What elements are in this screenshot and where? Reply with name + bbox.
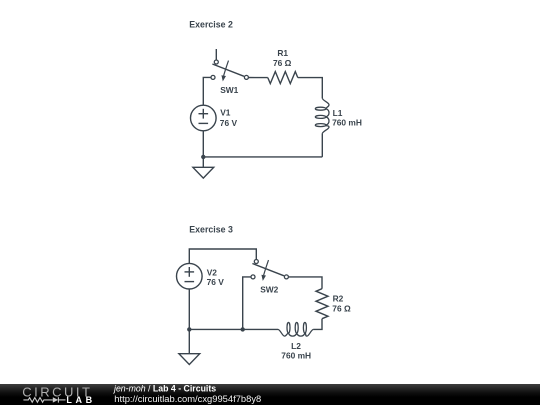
label L2 value 760 mH — [281, 341, 311, 361]
svg-text:R2: R2 — [333, 294, 344, 304]
wire SW2 right terminal to R2 top — [286, 277, 322, 289]
wire V2 bottom to ground — [188, 289, 190, 354]
svg-text:76 V: 76 V — [207, 277, 225, 287]
wire V1 bottom to ground — [202, 131, 204, 168]
svg-text:SW1: SW1 — [220, 85, 238, 95]
switch SW1 — [211, 60, 248, 81]
svg-text:V2: V2 — [207, 268, 218, 278]
logo schematic glyph (resistor + diode line) — [23, 397, 65, 402]
svg-text:760 mH: 760 mH — [332, 118, 362, 128]
node junction dot SW2 branch — [241, 327, 245, 331]
label V2 value 76 V — [207, 268, 225, 288]
svg-text:L2: L2 — [291, 341, 301, 351]
svg-text:V1: V1 — [220, 108, 231, 118]
wire bottom rail circuit2 — [189, 328, 278, 330]
inductor L1 — [315, 98, 329, 133]
wire bottom rail circuit1 — [203, 156, 322, 158]
ground circuit1 — [193, 167, 214, 178]
wire R2 bottom to L2 right — [313, 319, 322, 330]
svg-text:SW2: SW2 — [260, 284, 278, 294]
wire V2 top to SW2 top — [189, 249, 256, 263]
svg-text:http://circuitlab.com/cxg9954f: http://circuitlab.com/cxg9954f7b8y8 — [114, 393, 261, 404]
resistor R1 — [268, 72, 298, 84]
inductor L2 — [278, 322, 313, 336]
svg-text:LAB: LAB — [66, 395, 95, 405]
footer bar — [0, 384, 540, 405]
voltage source V1 — [191, 105, 217, 131]
voltage source V2 — [177, 263, 203, 289]
wire right rail below L1 — [321, 134, 323, 157]
svg-text:Exercise 3: Exercise 3 — [189, 225, 233, 235]
svg-text:R1: R1 — [277, 48, 288, 58]
svg-text:Exercise 2: Exercise 2 — [189, 20, 233, 30]
svg-text:76 Ω: 76 Ω — [273, 58, 292, 68]
svg-text:76 V: 76 V — [220, 118, 238, 128]
label R1 value 76 ohm — [273, 48, 292, 68]
wire R1 left to SW1 right terminal — [246, 77, 267, 79]
wire SW2 left terminal down to bottom rail — [243, 277, 253, 330]
svg-text:760 mH: 760 mH — [281, 350, 311, 360]
label V1 value 76 V — [220, 108, 238, 128]
label L1 value 760 mH — [332, 108, 362, 127]
node junction dot circuit1 — [201, 155, 205, 159]
wire SW1 left terminal to V1 top — [203, 77, 213, 105]
node junction dot below V2 — [187, 327, 191, 331]
wire switch SW1 top stub — [215, 49, 217, 62]
switch SW2 — [251, 260, 288, 281]
svg-text:76 Ω: 76 Ω — [332, 304, 351, 314]
label R2 value 76 ohm — [332, 294, 351, 314]
ground circuit2 — [179, 354, 200, 365]
wire L1 top to R1 right — [298, 78, 323, 99]
resistor R2 — [316, 289, 328, 319]
